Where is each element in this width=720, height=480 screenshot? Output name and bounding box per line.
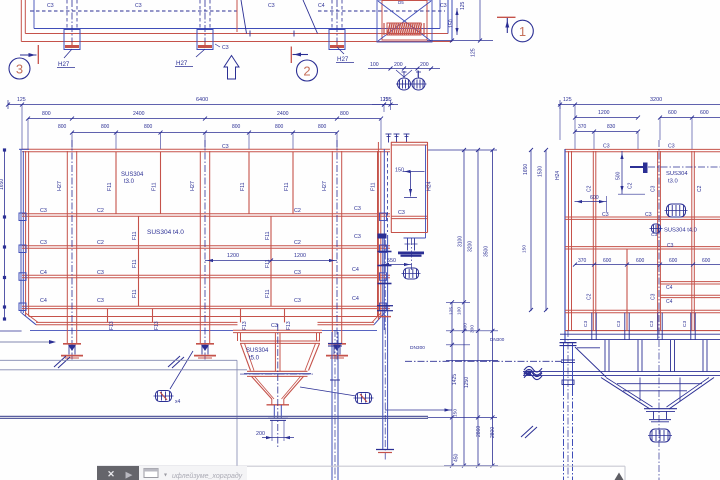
side truss diagonal: [575, 347, 606, 377]
ring stiffener row1: [22, 213, 390, 215]
svg-text:H27: H27: [57, 181, 63, 191]
footing dim line 150: [385, 409, 452, 411]
hatched bolt block: [387, 23, 421, 35]
side dim 500 vertical: [621, 151, 623, 194]
svg-text:125: 125: [563, 97, 572, 103]
svg-text:F11: F11: [265, 231, 271, 240]
svg-text:C3: C3: [40, 208, 47, 214]
hopper upper flange ring: [240, 340, 320, 342]
plan column H27 centerline #3: [336, 0, 338, 49]
svg-text:125: 125: [460, 1, 466, 10]
svg-text:D5: D5: [398, 0, 404, 5]
side ring row2: [565, 246, 720, 248]
svg-text:F11: F11: [371, 182, 377, 191]
column base plate #3: [328, 343, 346, 345]
plan column H27 base detail #2: [197, 30, 213, 50]
north/up block arrow: [224, 56, 239, 80]
toolbar divider line: [97, 465, 625, 467]
svg-text:F11: F11: [132, 259, 138, 268]
svg-text:1425: 1425: [452, 374, 458, 385]
svg-text:125: 125: [380, 97, 389, 103]
plan column H27 centerline #1: [71, 0, 73, 49]
svg-text:150: 150: [522, 245, 528, 253]
svg-text:150: 150: [453, 409, 459, 417]
toolbar light segment with icon: [139, 466, 247, 480]
svg-text:1: 1: [519, 24, 526, 39]
front view right wall: [377, 151, 379, 316]
hopper centerline: [277, 324, 279, 447]
svg-text:C3: C3: [268, 3, 275, 9]
bracket hidden edge dashed: [387, 152, 389, 232]
svg-text:C3: C3: [651, 185, 657, 192]
svg-text:C3: C3: [667, 243, 674, 249]
svg-text:600: 600: [603, 258, 612, 264]
ground line: [0, 415, 428, 417]
column base plate #1: [63, 343, 81, 345]
plan hopper edge red: [236, 0, 238, 32]
svg-text:H27: H27: [337, 56, 349, 63]
svg-text:t3.0: t3.0: [668, 179, 678, 185]
svg-text:C3: C3: [97, 270, 104, 276]
svg-text:2860: 2860: [476, 426, 482, 437]
svg-text:3100: 3100: [458, 236, 464, 247]
svg-text:C2: C2: [97, 208, 104, 214]
left height dim line: [4, 150, 6, 319]
level tick lines: [446, 330, 498, 332]
svg-text:C2: C2: [294, 208, 301, 214]
svg-text:F11: F11: [265, 289, 271, 298]
dim connector at tank top: [428, 149, 497, 151]
plan view hidden centerline: [30, 10, 240, 12]
bracket bottom bolts: [404, 237, 426, 239]
plan column H27 base detail #3: [329, 30, 345, 50]
svg-text:450: 450: [454, 453, 460, 462]
svg-text:3200: 3200: [468, 241, 474, 252]
section mark 1 arrow: [497, 16, 516, 18]
hopper center pipe: [274, 333, 276, 371]
svg-text:F11: F11: [284, 182, 290, 191]
svg-text:600: 600: [700, 110, 709, 116]
svg-text:3200: 3200: [650, 97, 662, 103]
front view tank top plate C3: [22, 148, 390, 150]
pit line: [0, 359, 237, 361]
svg-text:H24: H24: [427, 181, 433, 191]
svg-text:ифлейзуме_хорграду: ифлейзуме_хорграду: [172, 472, 243, 480]
popup frame right: [624, 466, 626, 480]
svg-text:C3: C3: [97, 298, 104, 304]
svg-text:1250: 1250: [464, 377, 470, 388]
svg-text:200: 200: [256, 431, 265, 437]
svg-text:✕: ✕: [107, 469, 115, 479]
svg-text:F13: F13: [154, 321, 160, 330]
wall lugs right: [380, 213, 387, 221]
svg-text:C4: C4: [352, 267, 359, 273]
svg-text:SUS304: SUS304: [246, 348, 269, 354]
leader arrow to column base: [0, 341, 54, 343]
svg-text:H24: H24: [555, 171, 561, 180]
section mark 2 circle: [297, 60, 318, 81]
weld symbol x4 (column bases): [156, 391, 172, 402]
side left dim stack: [530, 150, 532, 311]
svg-text:800: 800: [144, 124, 153, 130]
svg-text:C3: C3: [40, 240, 47, 246]
svg-text:C3: C3: [651, 232, 657, 238]
hopper mid flange: [247, 370, 308, 372]
svg-text:C3: C3: [294, 298, 301, 304]
side left column below deck: [563, 342, 565, 389]
svg-text:SUS304: SUS304: [666, 171, 688, 177]
column base plate #2: [196, 343, 214, 345]
svg-text:t3.0: t3.0: [124, 179, 135, 185]
drain pipe below column 3: [331, 332, 333, 480]
svg-text:DN300: DN300: [410, 345, 425, 351]
svg-text:t5.0: t5.0: [249, 356, 260, 362]
svg-text:830: 830: [607, 124, 616, 130]
wall drain pipe (right of tank): [377, 142, 379, 320]
side tank top plate: [565, 148, 720, 150]
svg-text:F13: F13: [242, 321, 248, 330]
side ext lines: [574, 132, 576, 149]
svg-text:C3: C3: [354, 206, 361, 212]
svg-text:H27: H27: [176, 60, 188, 67]
svg-text:C4: C4: [666, 285, 673, 291]
svg-text:1200: 1200: [598, 110, 610, 116]
svg-text:800: 800: [101, 124, 110, 130]
section mark 2 arrow: [293, 54, 309, 56]
extension lines to tank top: [71, 133, 73, 149]
hopper lower cone: [252, 376, 272, 399]
svg-text:100: 100: [370, 62, 379, 68]
front column H27 #2: [199, 151, 201, 343]
svg-text:C3: C3: [583, 321, 589, 327]
svg-text:C2: C2: [628, 182, 634, 189]
svg-text:370: 370: [578, 124, 587, 130]
front F11 stiffeners top band: [115, 152, 117, 214]
svg-text:100: 100: [457, 307, 463, 315]
svg-text:125: 125: [471, 48, 477, 57]
svg-text:6400: 6400: [196, 97, 208, 103]
anchor bolt symbols: [398, 78, 411, 90]
svg-text:2800: 2800: [490, 427, 496, 438]
plan hopper slant left: [241, 0, 247, 34]
hopper outlet: [271, 399, 273, 405]
pit lower line: [0, 369, 247, 371]
front column H27 #3: [331, 151, 333, 343]
svg-text:C3: C3: [222, 45, 229, 51]
svg-text:F13: F13: [286, 321, 292, 330]
svg-text:2: 2: [303, 63, 310, 78]
svg-text:C4: C4: [318, 3, 325, 9]
svg-text:1200: 1200: [227, 253, 239, 259]
svg-text:370: 370: [578, 258, 587, 264]
side text SUS304 t4.0: [652, 224, 661, 233]
svg-text:C2: C2: [587, 185, 593, 192]
svg-text:800: 800: [275, 124, 284, 130]
svg-text:C3: C3: [294, 270, 301, 276]
svg-text:F11: F11: [152, 182, 158, 191]
plan view inner shell line: [33, 0, 35, 29]
side hopper slopes: [601, 378, 650, 410]
side rails to left with breaks: [405, 360, 562, 362]
left bottom chamfer: [22, 313, 36, 325]
svg-text:3500: 3500: [484, 246, 490, 257]
svg-text:1530: 1530: [538, 166, 544, 177]
hopper slope left: [241, 343, 251, 370]
side stiffener 693: [691, 151, 693, 330]
svg-text:C3: C3: [47, 3, 54, 9]
pipe flanges: [378, 234, 387, 239]
right bottom chamfer: [374, 313, 384, 325]
dim 125 (below plan right): [479, 0, 481, 41]
hopper slope right: [309, 343, 320, 370]
svg-text:C3: C3: [616, 321, 622, 327]
side clips below bottom ring: [591, 313, 593, 340]
small level ticks upper: [446, 301, 470, 303]
svg-text:600: 600: [590, 195, 599, 201]
plan column H27 centerline #2: [204, 0, 206, 49]
front column H27 #1: [66, 151, 68, 343]
svg-text:C3: C3: [354, 234, 361, 240]
svg-text:C4: C4: [40, 298, 47, 304]
svg-text:DN300: DN300: [490, 337, 505, 342]
svg-text:1200: 1200: [294, 253, 306, 259]
front F13 posts bottom: [107, 309, 109, 323]
section mark 3 arrow: [20, 54, 37, 56]
bracket top bolts: [388, 134, 390, 143]
svg-text:C3: C3: [222, 144, 229, 150]
svg-text:800: 800: [232, 124, 241, 130]
side left wall: [564, 149, 566, 342]
svg-text:600: 600: [668, 110, 677, 116]
svg-text:C3: C3: [649, 321, 655, 327]
side deck bottom: [565, 330, 720, 332]
pit wall vertical: [236, 360, 238, 477]
svg-text:2400: 2400: [277, 111, 289, 117]
svg-text:500: 500: [616, 171, 622, 180]
svg-text:SUS304 t4.0: SUS304 t4.0: [664, 228, 697, 234]
bracket bottom plate: [391, 232, 428, 234]
svg-text:200: 200: [420, 62, 429, 68]
dim 200 outlet: [271, 420, 273, 441]
side ring row bottom: [565, 309, 720, 311]
svg-text:C3: C3: [645, 212, 652, 218]
anchor bolt symbol at 550: [404, 268, 419, 279]
ring stiffener row2: [22, 245, 390, 247]
svg-text:F11: F11: [240, 182, 246, 191]
svg-text:F13: F13: [109, 321, 115, 330]
side weld oval: [667, 204, 686, 217]
plan column H27 base detail #1: [64, 30, 80, 50]
svg-text:C3: C3: [271, 323, 278, 329]
cursor arrow: [615, 473, 624, 480]
svg-text:▾: ▾: [164, 473, 167, 479]
plan view bottom shell lines: [25, 33, 448, 35]
svg-text:SUS304: SUS304: [121, 172, 144, 178]
side stiffener 627: [626, 249, 628, 330]
toolbar dark button group: [97, 466, 139, 480]
section mark 3 circle: [9, 58, 30, 79]
side hopper outlet flange: [644, 408, 677, 410]
plan anchor-bolt box detail: [377, 0, 432, 42]
plan hopper slant right: [303, 0, 318, 34]
hopper neck verticals: [237, 333, 239, 341]
right dim verticals: [451, 302, 453, 466]
weld symbol hopper: [356, 393, 372, 404]
svg-text:300: 300: [463, 323, 469, 331]
svg-text:300: 300: [470, 325, 476, 333]
ring stiffener row3: [22, 274, 390, 276]
svg-text:C3: C3: [668, 144, 675, 150]
svg-text:1650: 1650: [0, 179, 5, 190]
ring stiffener row4: [22, 305, 390, 307]
svg-text:2400: 2400: [133, 111, 145, 117]
side stiffener 594 C2: [592, 151, 594, 330]
section mark 1 circle: [512, 20, 534, 42]
svg-text:H27: H27: [58, 61, 70, 68]
svg-text:C2: C2: [587, 293, 593, 300]
label H27 column 2: [196, 49, 205, 57]
tank bottom plate: [29, 316, 381, 318]
svg-text:600: 600: [636, 258, 645, 264]
front view left wall: [20, 149, 22, 313]
bottom frame lines: [36, 321, 238, 323]
front F11 stiffeners lower bands: [138, 216, 140, 306]
side ring short rows right: [660, 281, 720, 283]
plan view left wall: [20, 0, 22, 42]
label H27 column 3: [337, 47, 344, 54]
svg-text:150: 150: [449, 19, 455, 28]
svg-text:H27: H27: [322, 181, 328, 191]
wall lugs left: [19, 213, 26, 221]
side nozzle plug top: [643, 163, 648, 174]
side lower rail: [523, 371, 720, 373]
side center column: [657, 151, 659, 330]
svg-text:x4: x4: [175, 399, 181, 405]
svg-text:800: 800: [318, 124, 327, 130]
svg-text:1650: 1650: [523, 164, 529, 175]
side ring row1: [565, 216, 720, 218]
side truss posts: [604, 340, 606, 372]
svg-text:C4: C4: [666, 299, 673, 305]
svg-text:SUS304 t4.0: SUS304 t4.0: [147, 229, 184, 236]
svg-text:C3: C3: [603, 144, 610, 150]
svg-text:C4: C4: [40, 270, 47, 276]
svg-text:600: 600: [702, 258, 711, 264]
svg-text:▶: ▶: [126, 470, 133, 480]
svg-text:800: 800: [58, 124, 67, 130]
svg-text:C3: C3: [440, 3, 447, 9]
svg-text:C4: C4: [352, 296, 359, 302]
hopper top flange: [233, 329, 322, 331]
svg-text:C3: C3: [135, 3, 142, 9]
bracket sides: [390, 142, 392, 233]
weld chevron left of column: [521, 426, 533, 437]
svg-text:C3: C3: [602, 212, 609, 218]
svg-text:125: 125: [449, 307, 455, 315]
svg-text:C3: C3: [398, 210, 405, 216]
bracket top plate: [391, 141, 428, 143]
svg-text:3: 3: [16, 61, 23, 76]
svg-text:800: 800: [340, 111, 349, 117]
plan view right wall: [447, 0, 449, 34]
svg-text:800: 800: [42, 111, 51, 117]
svg-text:F11: F11: [107, 182, 113, 191]
svg-text:C3: C3: [682, 321, 688, 327]
svg-text:125: 125: [17, 97, 26, 103]
svg-text:F11: F11: [132, 289, 138, 298]
weld chevrons at bases: [54, 356, 66, 367]
svg-text:C3: C3: [651, 293, 657, 300]
side outlet bolt symbol: [650, 429, 670, 442]
svg-text:200: 200: [394, 62, 403, 68]
svg-text:600: 600: [669, 258, 678, 264]
dim 150 at plan right: [456, 8, 458, 35]
label H27 column 1: [64, 49, 72, 58]
side hopper inner verticals: [639, 378, 641, 402]
svg-text:C2: C2: [294, 240, 301, 246]
svg-text:C2: C2: [97, 240, 104, 246]
svg-text:150: 150: [395, 168, 404, 174]
svg-text:H27: H27: [190, 181, 196, 191]
svg-text:C2: C2: [697, 185, 703, 192]
svg-text:F11: F11: [132, 231, 138, 240]
